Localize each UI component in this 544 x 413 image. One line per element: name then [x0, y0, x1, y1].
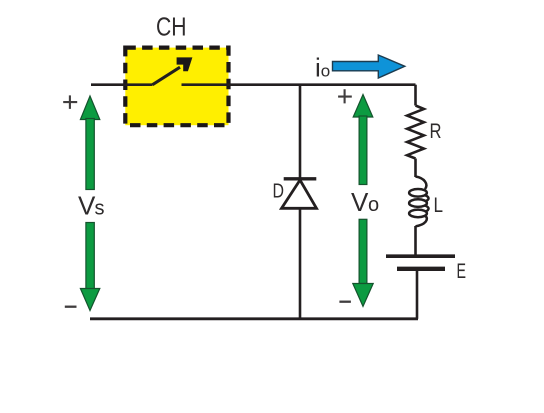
- source minus sign: [65, 306, 77, 308]
- battery E short plate: [397, 267, 445, 271]
- Vo arrow upper shaft: [359, 116, 367, 185]
- chopper switch CH yellow box: [125, 48, 228, 126]
- wire top-right corner down to resistor: [414, 85, 417, 106]
- source plus sign: [63, 95, 77, 109]
- svg-text:CH: CH: [156, 12, 187, 42]
- wire diode branch upper: [299, 85, 302, 178]
- wire resistor to inductor: [414, 159, 417, 178]
- Vs arrow top head: [80, 96, 99, 120]
- battery E long plate: [386, 254, 455, 258]
- inductor L coil: [409, 177, 428, 227]
- wire top-right segment: [182, 83, 416, 86]
- switch lever arrowhead: [177, 57, 193, 71]
- svg-text:L: L: [434, 194, 444, 217]
- wire diode branch lower: [299, 208, 302, 318]
- Vo arrow bottom head: [353, 284, 373, 307]
- Vs arrow bottom head: [80, 289, 99, 311]
- Vs arrow lower shaft: [86, 223, 94, 290]
- load minus sign: [339, 301, 351, 303]
- resistor R zigzag: [407, 106, 424, 159]
- svg-text:o: o: [321, 62, 330, 81]
- svg-text:E: E: [457, 260, 467, 283]
- diode D triangle: [282, 180, 317, 208]
- svg-text:R: R: [430, 120, 442, 143]
- diode D cathode bar: [284, 177, 317, 180]
- svg-text:V: V: [351, 187, 369, 217]
- svg-text:o: o: [368, 194, 379, 216]
- wire bottom: [90, 317, 418, 320]
- wire top-left segment: [91, 83, 153, 86]
- load plus sign: [338, 89, 352, 103]
- wire battery to bottom: [416, 271, 419, 319]
- Vo arrow top head: [353, 95, 373, 118]
- svg-text:V: V: [78, 191, 96, 221]
- svg-text:D: D: [273, 180, 285, 202]
- Vs arrow upper shaft: [86, 119, 94, 190]
- switch lever: [153, 67, 181, 85]
- Vo arrow lower shaft: [359, 219, 367, 283]
- output current blue arrow: [333, 55, 405, 78]
- svg-text:s: s: [95, 198, 105, 220]
- wire inductor to battery: [414, 226, 417, 255]
